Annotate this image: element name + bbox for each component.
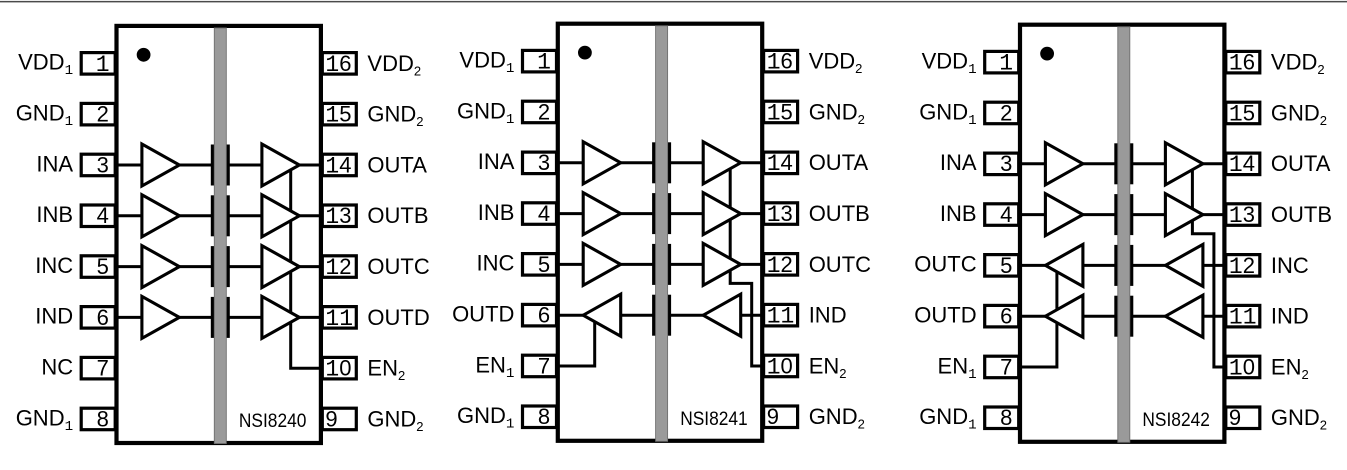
wire channel A right inner (228, 164, 265, 167)
pin 5 box (81, 256, 115, 277)
svg-text:5: 5 (1000, 253, 1012, 278)
wire EN2 enable line (291, 165, 322, 368)
svg-text:OUTA: OUTA (1271, 151, 1331, 176)
svg-text:GND2: GND2 (367, 102, 423, 130)
wire channel C left inner (1080, 264, 1118, 267)
svg-text:14: 14 (1229, 151, 1255, 178)
svg-text:OUTA: OUTA (367, 152, 427, 177)
svg-text:6: 6 (538, 303, 550, 328)
svg-text:4: 4 (97, 203, 109, 228)
svg-text:5: 5 (538, 252, 550, 277)
svg-text:GND2: GND2 (367, 406, 423, 434)
IC body NSI8240 (117, 26, 321, 443)
buffer channel C output side (reversed) (1045, 244, 1083, 286)
pin 9 box (322, 408, 356, 430)
pin 16 box (1226, 51, 1260, 73)
isolation barrier strip (214, 28, 226, 444)
svg-text:IND: IND (35, 304, 73, 329)
pin 6 box (523, 304, 557, 326)
svg-text:OUTB: OUTB (809, 201, 870, 226)
wire channel B right inner (228, 214, 265, 217)
pin 7 box (523, 355, 557, 377)
svg-text:VDD2: VDD2 (367, 51, 421, 79)
buffer channel A output side (703, 142, 741, 184)
pin 11 box (1226, 305, 1260, 327)
pin 1 box (81, 53, 115, 75)
wire channel C left outer (557, 263, 586, 266)
wire channel C left inner (176, 265, 214, 268)
page header rule (0, 1, 1347, 3)
isolation coupling bars channel D (1114, 296, 1117, 337)
svg-text:8: 8 (1000, 405, 1012, 430)
wire channel A left outer (1019, 162, 1048, 165)
wire channel B left outer (1019, 213, 1048, 216)
buffer channel D output side (262, 296, 300, 338)
buffer channel D input side (reversed) (703, 294, 741, 336)
buffer channel C input side (reversed) (1165, 244, 1203, 286)
svg-text:GND2: GND2 (1271, 100, 1327, 128)
svg-text:7: 7 (97, 356, 109, 381)
pin 14 box (764, 152, 798, 174)
wire channel B left outer (557, 212, 586, 215)
pin 10 box (322, 357, 356, 379)
svg-text:OUTC: OUTC (914, 252, 976, 277)
pin 8 box (81, 408, 115, 430)
svg-text:9: 9 (325, 406, 337, 431)
isolation barrier strip (1118, 27, 1130, 443)
wire channel A right inner (1131, 162, 1168, 165)
svg-text:10: 10 (1229, 354, 1255, 381)
svg-text:3: 3 (97, 152, 109, 177)
svg-text:10: 10 (767, 353, 793, 380)
pin 1 box (523, 50, 557, 72)
pin 1 indicator dot (137, 48, 151, 62)
buffer channel B input side (1045, 194, 1083, 236)
pin 14 box (322, 154, 356, 176)
pin 10 box (1226, 356, 1260, 378)
isolation coupling bars channel C (211, 246, 214, 287)
svg-text:15: 15 (1229, 100, 1255, 127)
wire channel C right outer (739, 263, 764, 266)
wire channel B right inner (669, 212, 706, 215)
pin 15 box (322, 103, 356, 125)
svg-text:INB: INB (478, 200, 515, 225)
wire EN1 enable line (557, 315, 595, 366)
svg-text:2: 2 (1000, 100, 1012, 125)
pin 7 box (985, 356, 1019, 378)
svg-text:13: 13 (767, 201, 793, 228)
svg-text:16: 16 (767, 49, 793, 76)
svg-text:11: 11 (325, 306, 353, 332)
svg-text:9: 9 (1229, 405, 1241, 430)
wire channel C right inner (228, 265, 265, 268)
buffer channel C input side (142, 246, 180, 288)
wire channel D right outer (739, 314, 764, 317)
wire channel A right inner (669, 161, 706, 164)
pin 3 box (81, 154, 115, 176)
pin 1 indicator dot (1040, 47, 1054, 61)
wire EN1 enable line (1019, 265, 1057, 367)
svg-text:OUTB: OUTB (367, 203, 428, 228)
buffer channel A input side (142, 144, 180, 186)
svg-text:NC: NC (41, 355, 73, 380)
wire channel C left inner (618, 263, 656, 266)
pin 4 box (985, 204, 1019, 226)
pin 15 box (1226, 102, 1260, 124)
pin 6 box (985, 305, 1019, 327)
svg-text:1: 1 (96, 52, 110, 78)
pin 10 box (764, 355, 798, 377)
isolation barrier strip (656, 26, 668, 442)
wire channel C right outer (1201, 264, 1226, 267)
pin 13 box (764, 203, 798, 225)
svg-text:6: 6 (97, 305, 109, 330)
pin 12 box (322, 256, 356, 277)
svg-text:OUTD: OUTD (914, 303, 976, 328)
buffer channel A output side (262, 144, 300, 186)
IC body NSI8241 (558, 24, 762, 441)
wire channel D right inner (1131, 315, 1168, 318)
pin 2 box (985, 102, 1019, 124)
isolation coupling bars channel B (652, 193, 655, 234)
svg-text:INB: INB (940, 201, 977, 226)
svg-text:16: 16 (325, 51, 351, 78)
wire channel D left outer (557, 314, 586, 317)
pin 14 box (1226, 153, 1260, 175)
svg-text:OUTD: OUTD (452, 302, 514, 327)
buffer channel B output side (1165, 194, 1203, 236)
pin 12 box (1226, 255, 1260, 277)
svg-text:NSI8242: NSI8242 (1142, 409, 1210, 431)
wire channel A left outer (115, 164, 144, 167)
pin 16 box (764, 50, 798, 72)
wire channel D left outer (1019, 315, 1048, 318)
isolation coupling bars channel B (1114, 194, 1117, 235)
pin 8 box (523, 406, 557, 428)
wire channel B left inner (1080, 213, 1118, 216)
svg-text:11: 11 (1229, 305, 1257, 331)
svg-text:12: 12 (767, 252, 793, 279)
wire channel C left outer (115, 265, 144, 268)
wire channel B right outer (1201, 213, 1226, 216)
svg-text:10: 10 (325, 356, 351, 383)
pin 11 box (764, 304, 798, 326)
pin 8 box (985, 407, 1019, 429)
svg-text:NSI8240: NSI8240 (239, 410, 307, 432)
wire channel C right inner (1131, 264, 1168, 267)
pin 11 box (322, 307, 356, 329)
buffer channel A input side (1045, 143, 1083, 185)
wire channel A left inner (618, 161, 656, 164)
pin 3 box (523, 152, 557, 174)
svg-text:7: 7 (538, 353, 550, 378)
buffer channel B output side (703, 193, 741, 235)
svg-text:1: 1 (537, 50, 551, 76)
svg-text:4: 4 (538, 201, 550, 226)
isolation coupling bars channel D (652, 295, 655, 336)
svg-text:16: 16 (1229, 50, 1255, 77)
svg-text:15: 15 (325, 102, 351, 129)
isolation coupling bars channel A (1114, 143, 1117, 184)
svg-text:NSI8241: NSI8241 (680, 408, 748, 430)
buffer channel D output side (reversed) (1045, 295, 1083, 337)
isolation coupling bars channel C (652, 244, 655, 285)
svg-text:OUTC: OUTC (809, 252, 871, 277)
buffer channel A output side (1165, 143, 1203, 185)
wire channel D right outer (297, 316, 322, 319)
IC package outline (1020, 25, 1224, 442)
svg-text:6: 6 (1000, 304, 1012, 329)
wire channel C right inner (669, 263, 706, 266)
pin 5 box (985, 255, 1019, 277)
wire EN2 enable line (1192, 164, 1225, 367)
svg-text:GND2: GND2 (1271, 405, 1327, 433)
isolation coupling bars channel A (652, 142, 655, 183)
svg-text:8: 8 (538, 404, 550, 429)
svg-text:INC: INC (477, 251, 515, 276)
svg-text:14: 14 (767, 150, 793, 177)
svg-text:INA: INA (36, 151, 73, 176)
svg-text:INC: INC (35, 253, 73, 278)
wire channel A left inner (1080, 162, 1118, 165)
svg-text:8: 8 (97, 406, 109, 431)
svg-text:2: 2 (97, 102, 109, 127)
buffer channel D input side (reversed) (1165, 295, 1203, 337)
pin 9 box (764, 406, 798, 428)
pin 1 box (985, 51, 1019, 73)
pin 2 box (81, 103, 115, 125)
isolation coupling bars channel A (211, 145, 214, 186)
isolation coupling bars channel C (1114, 245, 1117, 286)
IC body NSI8242 (1020, 25, 1224, 442)
wire channel D right outer (1201, 315, 1226, 318)
pin 4 box (523, 203, 557, 225)
wire channel A right outer (739, 161, 764, 164)
svg-text:12: 12 (325, 254, 351, 281)
pin 16 box (322, 53, 356, 75)
wire channel A left outer (557, 161, 586, 164)
buffer channel B input side (142, 195, 180, 237)
svg-text:13: 13 (1229, 202, 1255, 229)
svg-text:OUTD: OUTD (367, 305, 429, 330)
svg-text:4: 4 (1000, 202, 1012, 227)
svg-text:OUTC: OUTC (367, 254, 429, 279)
isolation coupling bars channel B (211, 195, 214, 236)
svg-text:3: 3 (538, 150, 550, 175)
wire channel A right outer (297, 164, 322, 167)
svg-text:2: 2 (538, 99, 550, 124)
svg-text:OUTA: OUTA (809, 150, 869, 175)
wire channel B left outer (115, 214, 144, 217)
pin 12 box (764, 254, 798, 276)
svg-text:3: 3 (1000, 151, 1012, 176)
wire channel D left inner (176, 316, 214, 319)
wire channel A left inner (176, 164, 214, 167)
pin 6 box (81, 307, 115, 329)
buffer channel A input side (583, 142, 621, 184)
svg-text:VDD2: VDD2 (1271, 50, 1325, 78)
wire channel A right outer (1201, 162, 1226, 165)
svg-text:5: 5 (97, 254, 109, 279)
svg-text:12: 12 (1229, 253, 1255, 280)
pin 13 box (322, 205, 356, 227)
wire channel B left inner (618, 212, 656, 215)
svg-text:7: 7 (1000, 354, 1012, 379)
pin 7 box (81, 357, 115, 379)
wire EN2 enable line (730, 163, 763, 366)
svg-text:VDD2: VDD2 (809, 49, 863, 77)
wire channel C right outer (297, 265, 322, 268)
wire channel B right outer (297, 214, 322, 217)
IC package outline (558, 24, 762, 441)
wire channel B right outer (739, 212, 764, 215)
wire channel D right inner (228, 316, 265, 319)
IC package outline (117, 26, 321, 443)
svg-text:INA: INA (940, 150, 977, 175)
svg-text:INA: INA (478, 149, 515, 174)
buffer channel B output side (262, 195, 300, 237)
wire channel D left inner (1080, 315, 1118, 318)
buffer channel C input side (583, 243, 621, 285)
svg-text:INB: INB (36, 202, 73, 227)
wire channel D left inner (618, 314, 656, 317)
buffer channel C output side (703, 243, 741, 285)
pin 9 box (1226, 407, 1260, 429)
isolation coupling bars channel D (211, 297, 214, 338)
svg-text:9: 9 (767, 404, 779, 429)
buffer channel D input side (142, 296, 180, 338)
pin 4 box (81, 205, 115, 227)
pin 15 box (764, 101, 798, 123)
wire channel B right inner (1131, 213, 1168, 216)
wire channel C left outer (1019, 264, 1048, 267)
svg-text:GND2: GND2 (809, 404, 865, 432)
wire channel D left outer (115, 316, 144, 319)
svg-text:11: 11 (767, 304, 795, 330)
pin 5 box (523, 254, 557, 276)
svg-text:IND: IND (809, 303, 847, 328)
buffer channel C output side (262, 246, 300, 288)
svg-text:1: 1 (999, 51, 1013, 77)
svg-text:OUTB: OUTB (1271, 202, 1332, 227)
pin 3 box (985, 153, 1019, 175)
svg-text:IND: IND (1271, 304, 1309, 329)
pin 1 indicator dot (578, 46, 592, 60)
wire channel D right inner (669, 314, 706, 317)
buffer channel B input side (583, 193, 621, 235)
svg-text:GND2: GND2 (809, 99, 865, 127)
svg-text:15: 15 (767, 99, 793, 126)
pin 2 box (523, 101, 557, 123)
svg-text:13: 13 (325, 203, 351, 230)
buffer channel D output side (reversed) (583, 294, 621, 336)
pin 13 box (1226, 204, 1260, 226)
wire channel B left inner (176, 214, 214, 217)
svg-text:INC: INC (1271, 253, 1309, 278)
svg-text:14: 14 (325, 152, 351, 179)
